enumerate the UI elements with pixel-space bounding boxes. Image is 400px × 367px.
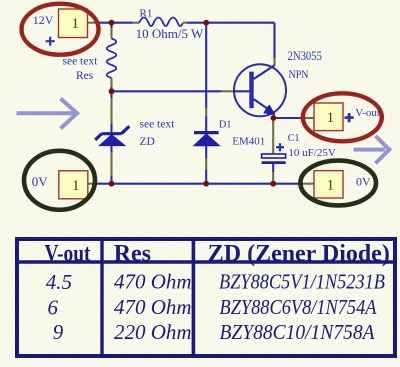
junction node base xyxy=(109,88,115,94)
terminal 1 (V-out) xyxy=(314,103,343,131)
svg-text:BZY88C10/1N758A: BZY88C10/1N758A xyxy=(220,320,375,344)
capacitor C1 xyxy=(262,118,286,184)
svg-text:V-out: V-out xyxy=(355,107,380,119)
svg-text:10 uF/25V: 10 uF/25V xyxy=(288,147,335,159)
svg-text:1: 1 xyxy=(327,110,335,126)
terminal 1 (12V input) xyxy=(59,9,88,38)
svg-text:Res: Res xyxy=(114,241,151,267)
svg-text:10 Ohm/5 W: 10 Ohm/5 W xyxy=(136,26,204,41)
svg-text:EM401: EM401 xyxy=(232,136,265,148)
svg-text:V-out: V-out xyxy=(45,241,91,267)
table outer border xyxy=(17,239,395,356)
svg-text:1: 1 xyxy=(327,178,335,194)
wire V-out xyxy=(273,117,314,119)
junction node at R1 right xyxy=(203,20,209,26)
svg-text:9: 9 xyxy=(53,320,64,344)
table header separator xyxy=(17,260,395,263)
svg-text:C1: C1 xyxy=(288,133,300,144)
terminal 1 (0V left) xyxy=(59,171,88,199)
svg-text:12V: 12V xyxy=(33,13,54,27)
svg-text:BZY88C6V8/1N754A: BZY88C6V8/1N754A xyxy=(220,295,377,319)
wire top rail right segment to collector corner xyxy=(187,23,275,66)
transistor Q1 2N3055 xyxy=(234,64,286,118)
svg-text:R1: R1 xyxy=(140,8,153,20)
svg-text:0V: 0V xyxy=(356,174,371,188)
plus sign V-out xyxy=(345,113,354,122)
svg-text:220 Ohm: 220 Ohm xyxy=(114,320,192,344)
junction node ground left xyxy=(109,181,115,187)
highlight ellipse 12V (red) xyxy=(22,4,99,55)
svg-text:470 Ohm: 470 Ohm xyxy=(114,270,192,294)
svg-text:ZD (Zener Diode): ZD (Zener Diode) xyxy=(208,241,390,267)
arrow input (left) xyxy=(17,99,78,129)
highlight ellipse V-out (red) xyxy=(303,93,382,141)
resistor Res (vertical, see text) xyxy=(107,23,117,92)
svg-text:6: 6 xyxy=(48,295,59,319)
svg-text:BZY88C5V1/1N5231B: BZY88C5V1/1N5231B xyxy=(219,270,385,294)
wire base rail xyxy=(112,90,234,92)
svg-text:0V: 0V xyxy=(32,174,49,189)
junction node ground C1 xyxy=(270,181,276,187)
terminal 1 (0V right) xyxy=(314,171,343,198)
junction node emitter xyxy=(271,115,277,121)
highlight ellipse 0V left (black) xyxy=(24,151,95,210)
svg-text:1: 1 xyxy=(72,178,80,194)
arrow output (right) xyxy=(354,136,390,163)
table column divider 2 xyxy=(192,239,196,356)
svg-text:NPN: NPN xyxy=(289,67,309,81)
svg-text:1: 1 xyxy=(72,16,80,32)
svg-text:4.5: 4.5 xyxy=(46,270,72,294)
plus sign of C1 xyxy=(276,143,284,151)
zener diode ZD xyxy=(95,91,129,183)
svg-text:2N3055: 2N3055 xyxy=(288,49,323,63)
resistor R1 xyxy=(133,18,188,27)
plus sign 12V xyxy=(46,37,55,46)
svg-text:D1: D1 xyxy=(219,120,232,131)
diode D1 xyxy=(194,23,220,184)
wire top rail left segment xyxy=(88,22,133,24)
table column divider 1 xyxy=(100,239,103,356)
svg-text:see text: see text xyxy=(63,55,99,67)
svg-text:ZD: ZD xyxy=(140,136,155,148)
junction node ground D1 xyxy=(203,181,209,187)
highlight ellipse 0V right (black) xyxy=(300,161,376,206)
svg-text:470 Ohm: 470 Ohm xyxy=(114,295,192,319)
svg-text:see text: see text xyxy=(140,118,176,130)
svg-text:Res: Res xyxy=(76,70,94,82)
wire bottom rail xyxy=(88,183,314,185)
junction node at R1 left xyxy=(109,20,115,26)
